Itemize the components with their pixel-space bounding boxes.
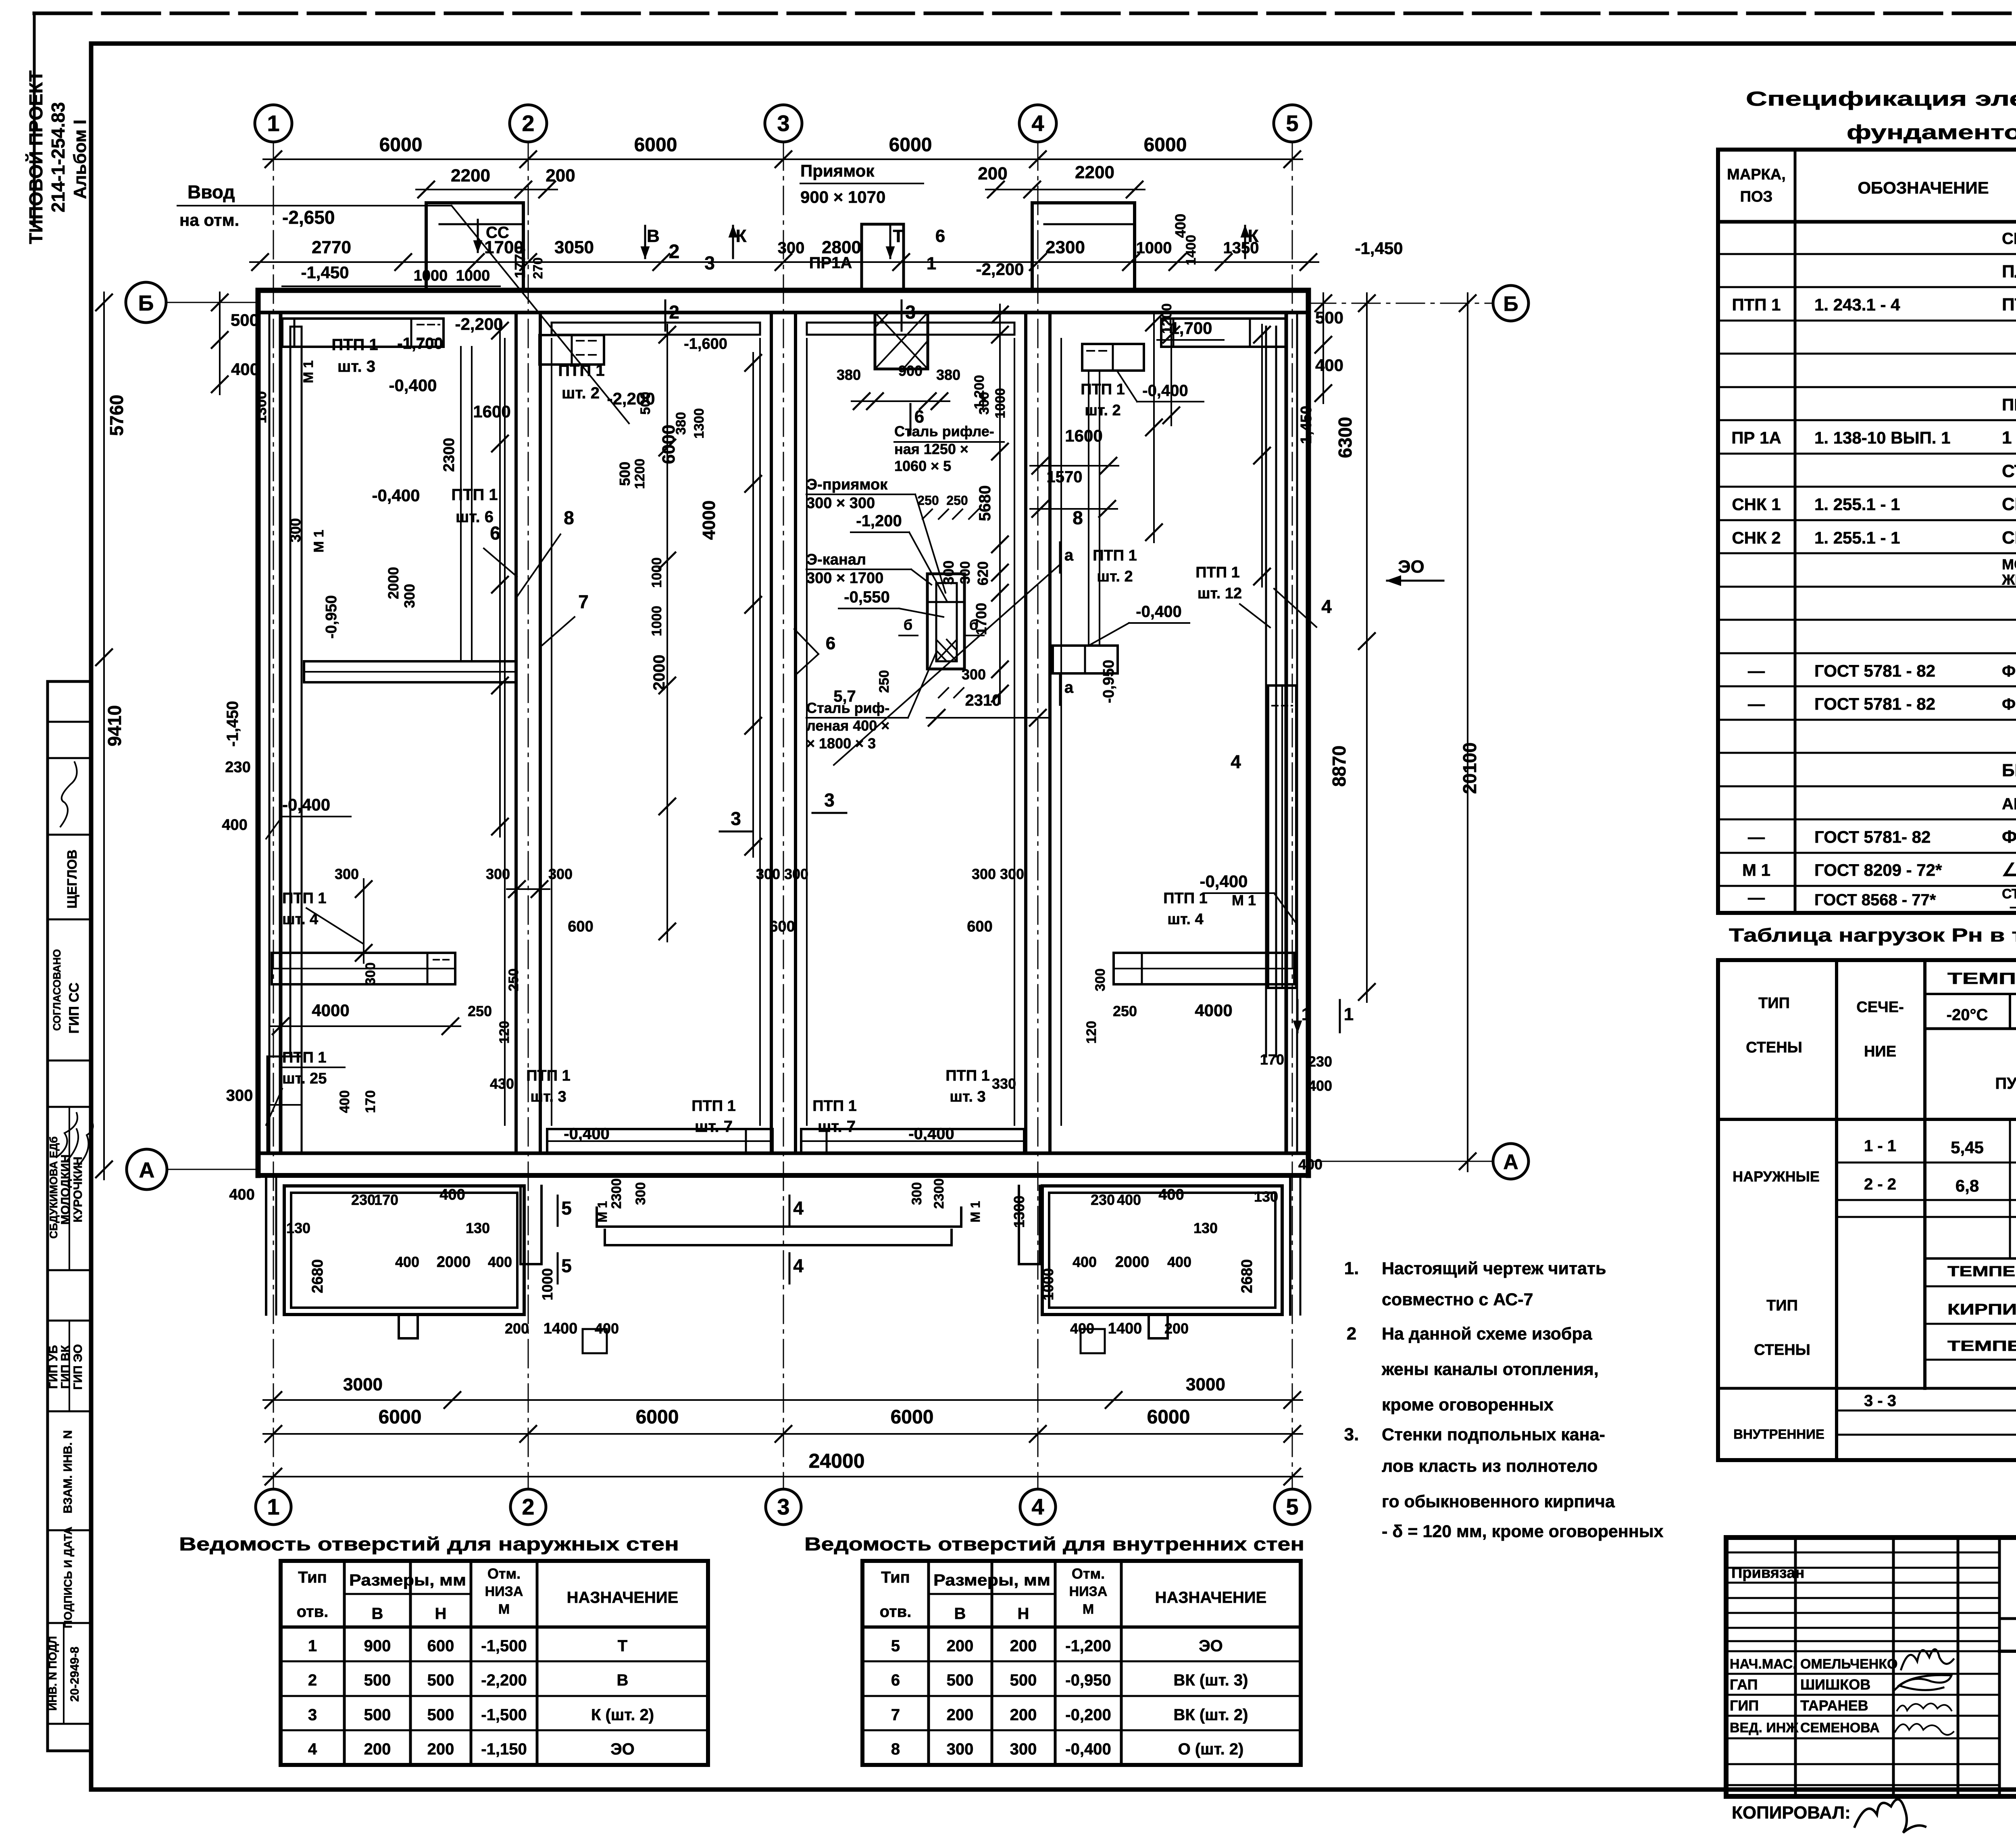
svg-text:900: 900: [364, 1637, 391, 1655]
svg-text:9410: 9410: [104, 705, 125, 746]
svg-text:2200: 2200: [451, 166, 490, 185]
svg-text:1000: 1000: [649, 557, 664, 588]
svg-text:ГОСТ 5781 - 82: ГОСТ 5781 - 82: [1814, 661, 1935, 680]
interior wall along axis 4 left face: [1024, 313, 1027, 1153]
svg-text:б: б: [969, 617, 978, 633]
axis circle Б left: [126, 282, 166, 323]
svg-text:Тип: Тип: [881, 1569, 910, 1586]
svg-text:-1,200: -1,200: [1065, 1637, 1111, 1655]
bottom channel bar bay2-3 (ПТП1 шт.7): [547, 1129, 773, 1153]
svg-text:ШИШКОВ: ШИШКОВ: [1800, 1676, 1870, 1693]
svg-text:-1,150: -1,150: [481, 1740, 527, 1758]
svg-text:шт. 4: шт. 4: [282, 911, 318, 928]
svg-text:300 × 300: 300 × 300: [806, 495, 875, 512]
svg-text:ВЗАМ. ИНВ. N: ВЗАМ. ИНВ. N: [61, 1430, 75, 1514]
bottom exterior wall outer face: [258, 1173, 1308, 1178]
svg-text:НАРУЖНЫЕ: НАРУЖНЫЕ: [1733, 1168, 1820, 1185]
svg-text:1. 138-10 ВЫП. 1: 1. 138-10 ВЫП. 1: [1814, 428, 1950, 447]
svg-text:600: 600: [967, 918, 992, 935]
sheet top edge dashed line: [34, 12, 2016, 15]
svg-text:400: 400: [229, 1186, 254, 1203]
svg-text:Э-приямок: Э-приямок: [806, 476, 888, 493]
svg-text:5,7: 5,7: [833, 688, 856, 705]
svg-text:шт. 2: шт. 2: [1097, 568, 1133, 585]
svg-text:Отм.: Отм.: [1072, 1565, 1105, 1582]
svg-text:5: 5: [561, 1255, 572, 1276]
svg-text:5,45: 5,45: [1951, 1138, 1984, 1157]
axis circle А left: [127, 1149, 167, 1190]
svg-text:СОГЛАСОВАНО: СОГЛАСОВАНО: [51, 949, 63, 1031]
svg-text:6000: 6000: [636, 1406, 679, 1428]
svg-text:СС: СС: [486, 224, 509, 242]
svg-text:-0,400: -0,400: [1200, 872, 1248, 891]
svg-text:ТИП: ТИП: [1758, 995, 1790, 1012]
axis circle 3 top: [765, 105, 802, 142]
svg-text:4: 4: [1031, 1494, 1044, 1519]
svg-text:500: 500: [1315, 308, 1343, 327]
load table grid: [1718, 958, 2016, 962]
svg-text:СНК 2: СНК 2: [1732, 528, 1781, 547]
svg-text:О (шт. 2): О (шт. 2): [1178, 1740, 1244, 1758]
svg-text:ГИП СС: ГИП СС: [67, 983, 82, 1034]
svg-text:1: 1: [1302, 1004, 1311, 1024]
svg-text:ТИПОВОЙ ПРОЕКТ: ТИПОВОЙ ПРОЕКТ: [25, 71, 46, 244]
svg-text:400: 400: [1298, 1156, 1322, 1173]
svg-text:ПР1А: ПР1А: [809, 254, 852, 272]
svg-text:230: 230: [225, 759, 250, 776]
left wall lower channel detail: [267, 1056, 302, 1153]
svg-text:200: 200: [947, 1637, 974, 1655]
svg-text:—: —: [1748, 888, 1765, 907]
svg-text:3: 3: [777, 1494, 789, 1519]
svg-text:ЭО: ЭО: [1398, 557, 1425, 577]
svg-text:Стенки подпольных кана-: Стенки подпольных кана-: [1382, 1425, 1605, 1444]
svg-text:1000: 1000: [1040, 1268, 1056, 1300]
svg-text:3: 3: [905, 302, 916, 323]
svg-text:на отм.: на отм.: [179, 210, 239, 229]
svg-text:270: 270: [531, 257, 545, 279]
svg-text:ПТП 1: ПТП 1: [1081, 381, 1125, 398]
svg-text:НАЗНАЧЕНИЕ: НАЗНАЧЕНИЕ: [567, 1589, 679, 1606]
svg-text:1400: 1400: [1183, 235, 1199, 265]
svg-text:СНК 1: СНК 1: [1732, 495, 1781, 514]
svg-text:6,8: 6,8: [1956, 1176, 1979, 1195]
svg-text:400: 400: [222, 817, 247, 833]
svg-text:БЕТОН МАРКИ 200: БЕТОН МАРКИ 200: [2002, 760, 2016, 780]
extra vertical dim lines in bays for texture: [499, 321, 501, 837]
interior wall along axis 3 left face: [770, 313, 773, 1153]
svg-text:ВК (шт. 2): ВК (шт. 2): [1174, 1706, 1248, 1724]
svg-text:М 1: М 1: [595, 1201, 610, 1222]
title block outer border: [1726, 1538, 2016, 1796]
svg-text:жены каналы отопления,: жены каналы отопления,: [1381, 1360, 1599, 1379]
svg-text:1: 1: [267, 1494, 279, 1519]
right exterior wall channel line: [1296, 313, 1298, 1153]
svg-text:НИЗА: НИЗА: [485, 1584, 523, 1599]
step stub near axis 4: [1019, 1186, 1040, 1264]
svg-text:Э-канал: Э-канал: [806, 551, 866, 568]
svg-text:ПТП 1: ПТП 1: [451, 486, 498, 504]
svg-text:фундаментов и подпольных ка: фундаментов и подпольных каналов: [1847, 121, 2016, 144]
svg-text:1: 1: [267, 110, 279, 136]
svg-text:Н: Н: [1018, 1605, 1029, 1623]
left wall lines extended below A: [265, 1175, 267, 1315]
svg-text:4000: 4000: [312, 1001, 349, 1020]
svg-text:б: б: [904, 617, 912, 633]
vertical axis lines 1-5 dash-dot: [273, 142, 274, 1489]
svg-text:300: 300: [947, 1740, 974, 1758]
channel bar bay4-5 lower (ПТП1 шт.4): [1114, 953, 1294, 984]
svg-text:Т: Т: [893, 226, 904, 246]
svg-text:3: 3: [824, 790, 835, 810]
svg-text:ная 1250 ×: ная 1250 ×: [894, 441, 968, 457]
svg-text:1. 255.1 - 1: 1. 255.1 - 1: [1814, 495, 1900, 514]
svg-text:2: 2: [522, 110, 534, 136]
svg-text:-20°С: -20°С: [1947, 1006, 1988, 1024]
svg-text:ЭО: ЭО: [1199, 1637, 1223, 1655]
svg-text:1400: 1400: [1108, 1320, 1142, 1337]
svg-text:а: а: [1064, 546, 1074, 564]
svg-text:2: 2: [1347, 1324, 1356, 1344]
svg-text:Н: Н: [435, 1605, 447, 1623]
left wall inner channel lines: [289, 327, 292, 1056]
svg-text:ОМЕЛЬЧЕНКО: ОМЕЛЬЧЕНКО: [1800, 1656, 1898, 1672]
svg-text:1. 255.1 - 1: 1. 255.1 - 1: [1814, 528, 1900, 547]
svg-text:300: 300: [756, 866, 780, 882]
svg-text:3.: 3.: [1344, 1425, 1359, 1444]
svg-text:500: 500: [947, 1671, 974, 1689]
svg-text:250: 250: [468, 1003, 492, 1019]
svg-text:∠ 63 × 6: ∠ 63 × 6: [2002, 860, 2016, 880]
axis circle 5 bottom: [1275, 1489, 1310, 1525]
sidebar mid divider lines: [69, 1107, 70, 1270]
svg-text:ТИП: ТИП: [1766, 1297, 1798, 1314]
svg-text:3000: 3000: [1186, 1375, 1225, 1394]
svg-text:-0,950: -0,950: [1065, 1671, 1111, 1689]
svg-text:ТАРАНЕВ: ТАРАНЕВ: [1800, 1697, 1868, 1714]
svg-text:а: а: [1064, 679, 1074, 696]
svg-text:300: 300: [363, 963, 378, 985]
left exterior wall channel line: [269, 313, 271, 1153]
top wall ptp strips bay3-4: [807, 322, 1014, 324]
svg-text:—: —: [1748, 661, 1765, 680]
svg-text:200: 200: [1010, 1637, 1037, 1655]
svg-text:3: 3: [777, 110, 789, 136]
svg-text:20100: 20100: [1459, 742, 1480, 794]
svg-text:Ведомость отверстий для нар: Ведомость отверстий для наружных стен: [179, 1533, 679, 1554]
svg-text:-1,700: -1,700: [1164, 319, 1212, 338]
svg-text:-0,400: -0,400: [389, 376, 437, 395]
svg-text:4: 4: [793, 1198, 804, 1219]
svg-text:900 × 1070: 900 × 1070: [800, 188, 885, 206]
svg-text:8: 8: [1073, 507, 1083, 528]
svg-text:3: 3: [308, 1706, 317, 1724]
svg-text:380: 380: [936, 367, 960, 383]
svg-text:300: 300: [486, 866, 510, 882]
right wall inner channel lines: [1275, 327, 1277, 1056]
svg-text:6000: 6000: [1144, 134, 1187, 156]
svg-text:-1,200: -1,200: [856, 512, 902, 530]
svg-text:-0,400: -0,400: [1142, 382, 1188, 400]
svg-text:Размеры, мм: Размеры, мм: [933, 1571, 1050, 1589]
svg-text:ТЕМПЕРАТУРА НАРУЖНОГО ВОЗД: ТЕМПЕРАТУРА НАРУЖНОГО ВОЗДУХА: [1947, 970, 2016, 988]
svg-text:6300: 6300: [1335, 417, 1356, 458]
svg-text:250: 250: [877, 670, 892, 693]
svg-text:8870: 8870: [1329, 746, 1350, 787]
svg-text:ГИП ВК: ГИП ВК: [59, 1345, 72, 1389]
svg-text:-1,450: -1,450: [224, 701, 242, 746]
svg-text:М 1: М 1: [301, 360, 316, 383]
svg-text:А: А: [1503, 1150, 1518, 1174]
svg-text:6000: 6000: [1147, 1406, 1190, 1428]
left exterior wall outer face: [256, 290, 261, 1175]
svg-text:-2,200: -2,200: [455, 315, 503, 333]
svg-text:ПТП 1: ПТП 1: [1732, 295, 1781, 314]
svg-text:200: 200: [947, 1706, 974, 1724]
svg-text:400: 400: [1117, 1192, 1141, 1208]
small stub right of axis4 lower: [1081, 1329, 1105, 1353]
svg-text:4000: 4000: [1195, 1001, 1232, 1020]
svg-text:СЕМЕНОВА: СЕМЕНОВА: [1800, 1720, 1880, 1735]
svg-text:300: 300: [1010, 1740, 1037, 1758]
svg-text:300: 300: [940, 560, 957, 585]
svg-text:шт. 3: шт. 3: [950, 1088, 985, 1105]
svg-text:2680: 2680: [1239, 1259, 1256, 1294]
svg-text:-0,400: -0,400: [908, 1125, 954, 1143]
svg-text:МОЛОДКИН: МОЛОДКИН: [59, 1154, 72, 1225]
svg-text:го обыкновенного кирпича: го обыкновенного кирпича: [1382, 1492, 1615, 1511]
svg-text:380: 380: [837, 367, 861, 383]
svg-text:1000: 1000: [414, 267, 448, 284]
svg-text:6: 6: [826, 633, 835, 653]
svg-text:ПТП 1: ПТП 1: [282, 1049, 327, 1066]
svg-text:120: 120: [1084, 1021, 1099, 1044]
step stub near axis 2: [521, 1186, 541, 1264]
svg-text:шт. 3: шт. 3: [337, 358, 375, 375]
svg-text:-0,400: -0,400: [282, 795, 330, 814]
pit steps small rect bay4-5 top: [1082, 344, 1144, 371]
svg-text:ВЕД. ИНЖ: ВЕД. ИНЖ: [1730, 1720, 1798, 1735]
svg-text:отв.: отв.: [880, 1603, 912, 1621]
svg-text:отв.: отв.: [297, 1603, 329, 1621]
svg-text:6000: 6000: [891, 1406, 934, 1428]
svg-text:НАЧ.МАС.: НАЧ.МАС.: [1730, 1656, 1797, 1672]
svg-text:250: 250: [1113, 1003, 1137, 1019]
svg-text:500: 500: [231, 310, 259, 329]
top secondary dims: [416, 189, 557, 190]
svg-text:ПТП 1: ПТП 1: [1093, 547, 1137, 564]
svg-text:ЭО: ЭО: [610, 1740, 635, 1758]
svg-text:-0,950: -0,950: [323, 595, 340, 639]
right exterior wall outer face: [1306, 290, 1311, 1175]
svg-text:400: 400: [1308, 1077, 1332, 1094]
svg-text:ГОСТ 8209 - 72*: ГОСТ 8209 - 72*: [1814, 860, 1942, 879]
interior wall along axis 4 right face: [1048, 313, 1052, 1153]
svg-text:М 1: М 1: [1742, 860, 1770, 879]
top exterior wall inner face: [258, 311, 1308, 315]
svg-text:шт. 2: шт. 2: [562, 384, 600, 402]
svg-text:5680: 5680: [976, 485, 994, 521]
svg-text:МАРКА,: МАРКА,: [1727, 166, 1786, 183]
svg-text:2: 2: [522, 1494, 534, 1519]
svg-text:2: 2: [669, 241, 680, 263]
svg-text:кроме оговоренных: кроме оговоренных: [1382, 1395, 1554, 1415]
svg-text:—: —: [1748, 827, 1765, 846]
svg-text:К: К: [736, 226, 747, 246]
svg-text:ГИП: ГИП: [1730, 1697, 1759, 1714]
svg-text:ПОЗ: ПОЗ: [1740, 188, 1773, 205]
ptp strip under top wall bay4-5: [1161, 319, 1286, 347]
svg-text:В: В: [372, 1605, 383, 1623]
sheet left edge mark: [33, 13, 36, 226]
svg-text:шт. 6: шт. 6: [456, 508, 494, 526]
heating channel verticals bay1-2: [460, 347, 462, 661]
svg-text:250: 250: [917, 493, 939, 508]
ptp strip under top wall bay1 left: [282, 319, 444, 347]
svg-text:200: 200: [978, 164, 1007, 183]
svg-text:1200: 1200: [632, 458, 648, 489]
svg-text:200: 200: [505, 1320, 529, 1337]
axis line Б horizontal: [166, 302, 260, 303]
svg-text:ТЕМПЕРАТУРА НАРУЖНОГО ВОЗД: ТЕМПЕРАТУРА НАРУЖНОГО ВОЗДУХА: [1947, 1338, 2016, 1354]
axis circle 4 bottom: [1020, 1489, 1056, 1525]
svg-text:1600: 1600: [1065, 426, 1102, 445]
svg-text:400: 400: [231, 360, 259, 379]
svg-text:300: 300: [401, 584, 418, 608]
svg-text:В: В: [647, 226, 660, 246]
signatures squiggles: [1901, 1649, 1954, 1669]
svg-text:170: 170: [374, 1192, 398, 1208]
svg-text:130: 130: [1193, 1220, 1218, 1236]
svg-text:230: 230: [1308, 1053, 1332, 1070]
svg-text:ГОСТ 8568 - 77*: ГОСТ 8568 - 77*: [1814, 891, 1936, 909]
svg-text:400: 400: [1172, 214, 1189, 238]
svg-text:1. 243.1 - 4: 1. 243.1 - 4: [1814, 295, 1900, 314]
opening table grid: [862, 1559, 1301, 1563]
interior wall along axis 3 right face: [794, 313, 797, 1153]
svg-text:3: 3: [704, 252, 715, 273]
svg-text:300: 300: [962, 666, 986, 683]
svg-text:2300: 2300: [441, 438, 458, 472]
svg-text:На данной схеме изобра: На данной схеме изобра: [1382, 1324, 1593, 1344]
svg-text:ПР 1А: ПР 1А: [1731, 428, 1781, 447]
svg-text:5: 5: [1286, 110, 1298, 136]
portico bay1-2 outer ring: [284, 1186, 524, 1315]
priyamok hatched pit below top wall: [875, 313, 928, 369]
svg-text:170: 170: [1260, 1051, 1284, 1068]
svg-text:200: 200: [427, 1740, 454, 1758]
svg-text:1 - 1: 1 - 1: [1864, 1137, 1896, 1155]
svg-text:-0,400: -0,400: [1065, 1740, 1111, 1758]
svg-text:400: 400: [488, 1254, 512, 1270]
svg-text:Привязан: Привязан: [1731, 1565, 1804, 1581]
svg-text:- δ = 120 мм, кроме оговорен: - δ = 120 мм, кроме оговоренных: [1382, 1522, 1664, 1541]
svg-text:СЕЧЕ-: СЕЧЕ-: [1856, 999, 1904, 1016]
svg-text:М: М: [1083, 1602, 1094, 1617]
svg-text:1400: 1400: [544, 1320, 578, 1337]
svg-text:300: 300: [335, 866, 359, 882]
channel bar bay1-2 middle (ПТП1 шт.6): [304, 661, 516, 682]
svg-text:ПЕРЕМЫЧКИ БРУСКОВЫЕ: ПЕРЕМЫЧКИ БРУСКОВЫЕ: [2002, 395, 2016, 414]
svg-text:М 1: М 1: [311, 530, 327, 553]
svg-text:5: 5: [1286, 1494, 1298, 1519]
svg-text:2300: 2300: [609, 1178, 624, 1209]
svg-text:ГАП: ГАП: [1730, 1676, 1758, 1693]
svg-text:1060 × 5: 1060 × 5: [894, 458, 951, 474]
sidebar signatures squiggles: [56, 1113, 93, 1165]
svg-text:1: 1: [1344, 1004, 1354, 1024]
svg-text:1 ПР2 - 16.12.14: 1 ПР2 - 16.12.14: [2002, 428, 2016, 448]
svg-text:ПТП 1: ПТП 1: [558, 362, 604, 379]
svg-text:500: 500: [364, 1671, 391, 1689]
svg-text:шт. 3: шт. 3: [530, 1088, 566, 1105]
svg-text:1: 1: [927, 254, 936, 273]
svg-text:2 - 2: 2 - 2: [1864, 1175, 1896, 1193]
svg-text:300: 300: [1000, 866, 1024, 882]
svg-text:ОБОЗНАЧЕНИЕ: ОБОЗНАЧЕНИЕ: [1858, 178, 1989, 197]
svg-text:6000: 6000: [634, 134, 677, 156]
svg-text:ПЛИТЫ ПЛОСКИЕ: ПЛИТЫ ПЛОСКИЕ: [2002, 262, 2016, 281]
svg-text:ГИП УБ: ГИП УБ: [47, 1345, 60, 1389]
axis circle 4 top: [1019, 105, 1056, 142]
svg-text:5760: 5760: [106, 395, 127, 436]
svg-text:Ввод: Ввод: [187, 181, 235, 202]
svg-text:Б: Б: [138, 291, 154, 315]
svg-text:430: 430: [490, 1075, 514, 1092]
axis circle 2 top: [510, 105, 547, 142]
svg-text:500: 500: [616, 462, 633, 486]
svg-text:2000: 2000: [1115, 1254, 1150, 1271]
axis circle А right: [1493, 1144, 1529, 1179]
svg-text:-1,500: -1,500: [481, 1706, 527, 1724]
svg-text:6000: 6000: [379, 1406, 422, 1428]
bottom channel bar bay3-4 (ПТП1 шт.7): [801, 1129, 1024, 1153]
svg-text:НИЕ: НИЕ: [1864, 1043, 1896, 1060]
svg-text:1000: 1000: [649, 606, 664, 636]
svg-text:-0,400: -0,400: [564, 1125, 609, 1143]
portico bay1-2 inner ring: [291, 1193, 517, 1308]
svg-text:2300: 2300: [1045, 238, 1085, 257]
svg-text:ПТП 1: ПТП 1: [691, 1098, 736, 1115]
svg-text:Тип: Тип: [298, 1569, 327, 1586]
svg-text:2200: 2200: [1075, 163, 1114, 182]
svg-text:АРМАТУРНЫЕ ЭЛЕМЕНТЫ: АРМАТУРНЫЕ ЭЛЕМЕНТЫ: [2002, 795, 2016, 813]
svg-text:СБОРНЫЕ ЖЕЛ.-БЕТ. ЭЛ-ТЫ: СБОРНЫЕ ЖЕЛ.-БЕТ. ЭЛ-ТЫ: [2002, 230, 2016, 248]
svg-text:200: 200: [364, 1740, 391, 1758]
svg-text:300: 300: [287, 518, 304, 542]
title block right part lines: [1999, 1617, 2016, 1620]
svg-text:500: 500: [364, 1706, 391, 1724]
svg-text:1.: 1.: [1344, 1258, 1359, 1278]
svg-text:2300: 2300: [931, 1178, 947, 1209]
svg-text:Таблица нагрузок Рн в тс/п: Таблица нагрузок Рн в тс/п.м. на уровне …: [1729, 925, 2016, 946]
svg-text:7: 7: [891, 1706, 900, 1724]
svg-text:-2,200: -2,200: [976, 260, 1024, 279]
svg-text:2: 2: [669, 302, 679, 323]
svg-text:130: 130: [466, 1220, 490, 1236]
svg-text:СТУПЕНИ КРЫЛЕЦ: СТУПЕНИ КРЫЛЕЦ: [2002, 461, 2016, 481]
svg-text:1000: 1000: [456, 267, 490, 284]
svg-text:ПОДПИСЬ И ДАТА: ПОДПИСЬ И ДАТА: [62, 1527, 74, 1628]
svg-text:200: 200: [1010, 1706, 1037, 1724]
interior wall along axis 3 channel lines: [759, 339, 761, 1125]
svg-text:ГИП ЭО: ГИП ЭО: [71, 1344, 85, 1390]
svg-text:-0,200: -0,200: [1065, 1706, 1111, 1724]
svg-text:шт. 7: шт. 7: [695, 1118, 733, 1135]
svg-text:380: 380: [673, 412, 689, 435]
svg-text:Т: Т: [618, 1637, 627, 1655]
svg-text:5: 5: [891, 1637, 900, 1655]
